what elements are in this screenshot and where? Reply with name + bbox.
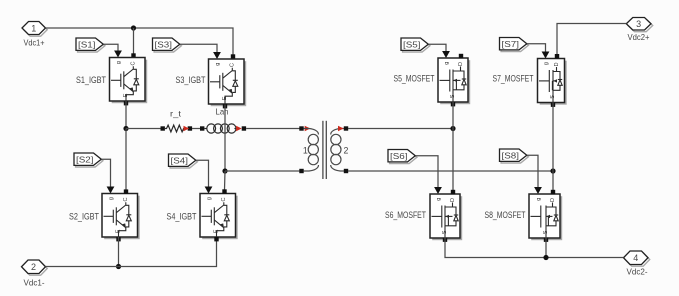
- wire S3 emitter to node c: [224, 105, 226, 172]
- wire [S1] to S1 gate: [103, 44, 122, 57]
- from tag [S3]: [153, 38, 182, 52]
- wire node c to transformer primary -: [225, 170, 300, 172]
- svg-text:g: g: [207, 197, 213, 200]
- junction node e (right bridge midpoint 1): [450, 126, 455, 131]
- pin S of S7: [551, 103, 555, 107]
- pin S of S8: [544, 238, 548, 242]
- pin E of S4: [214, 237, 218, 241]
- junction node d (Vdc1- rail): [116, 264, 121, 269]
- label S2_IGBT: [69, 211, 99, 221]
- label S7_MOSFET: [493, 73, 534, 83]
- svg-text:D: D: [550, 198, 556, 202]
- from tag [S7]: [500, 38, 529, 52]
- transistor S8 (MOSFET): [529, 194, 562, 240]
- transformer T1 (linear transformer): [299, 121, 348, 179]
- label Lan: [216, 106, 229, 116]
- svg-text:4: 4: [633, 253, 638, 263]
- svg-text:g: g: [116, 61, 122, 64]
- svg-text:[S6]: [S6]: [390, 151, 408, 161]
- svg-text:g: g: [436, 198, 442, 201]
- pin E of S1: [124, 101, 128, 105]
- wire S7 source to node f: [552, 103, 554, 172]
- wire [S7] to S7 gate: [527, 44, 550, 59]
- wire transformer secondary + to node e: [348, 128, 453, 130]
- transistor S3 (IGBT/Diode): [209, 59, 247, 106]
- wire Vdc1- rail: [46, 240, 217, 267]
- wire S1 emitter to node b: [125, 101, 127, 129]
- svg-text:C: C: [123, 197, 129, 201]
- pin E of S2: [116, 237, 120, 241]
- pin D of S5 (unconnected): [459, 54, 463, 58]
- port 3 (Vdc2+): [626, 18, 652, 43]
- wire [S4] to S4 gate: [196, 160, 213, 193]
- svg-text:1: 1: [303, 146, 308, 156]
- svg-text:r_t: r_t: [170, 109, 182, 119]
- from tag [S4]: [169, 154, 198, 168]
- pin E of S3: [223, 104, 227, 108]
- junction node g (Vdc2- rail): [543, 255, 548, 260]
- svg-text:Vdc2+: Vdc2+: [628, 32, 650, 42]
- wire node b to r_t: [126, 128, 161, 130]
- svg-text:Vdc1+: Vdc1+: [24, 38, 45, 48]
- svg-text:[S8]: [S8]: [502, 150, 520, 160]
- label S3_IGBT: [176, 75, 206, 85]
- svg-text:g: g: [544, 62, 550, 65]
- svg-text:2: 2: [31, 262, 36, 272]
- wire node b to S2 collector: [124, 129, 128, 194]
- svg-text:2: 2: [343, 146, 348, 156]
- svg-text:S5_MOSFET: S5_MOSFET: [394, 73, 435, 83]
- wire S6 source to Vdc2- rail: [445, 238, 624, 258]
- svg-text:[S4]: [S4]: [171, 155, 189, 165]
- wire node c to S4 collector: [222, 171, 226, 194]
- wire S5 source to node e: [452, 102, 454, 129]
- inductor Lan: [200, 124, 246, 133]
- label S1_IGBT: [76, 75, 106, 85]
- svg-text:D: D: [450, 198, 456, 202]
- svg-text:Vdc1-: Vdc1-: [24, 277, 45, 287]
- pin C of S3: [231, 54, 235, 58]
- port 2 (Vdc1-): [22, 260, 48, 287]
- wire node e to S6 drain: [451, 129, 455, 195]
- svg-text:C: C: [230, 63, 236, 67]
- wire Vdc2+ rail: [555, 24, 627, 59]
- wire [S3] to S3 gate: [180, 44, 221, 59]
- svg-text:[S7]: [S7]: [502, 39, 520, 49]
- svg-text:C: C: [221, 197, 227, 201]
- svg-text:3: 3: [636, 19, 641, 29]
- wire Vdc1+ rail: [46, 28, 234, 55]
- svg-text:g: g: [215, 63, 221, 66]
- wire transformer secondary - to node f: [348, 170, 553, 172]
- svg-text:g: g: [444, 62, 450, 65]
- svg-text:D: D: [458, 62, 464, 66]
- wire S8 source to Vdc2- rail: [545, 238, 547, 258]
- wire r_t to Lan: [192, 128, 200, 130]
- resistor r_t: [161, 125, 193, 132]
- wire [S8] to S8 gate: [527, 155, 542, 194]
- label S8_MOSFET: [485, 210, 526, 220]
- wire Lan to transformer primary +: [246, 128, 299, 130]
- svg-text:[S5]: [S5]: [403, 39, 421, 49]
- transistor S2 (IGBT/Diode): [102, 194, 140, 240]
- from tag [S6]: [388, 150, 417, 164]
- svg-text:C: C: [131, 61, 137, 65]
- svg-text:[S2]: [S2]: [76, 154, 94, 164]
- junction node c (left bridge midpoint 2): [222, 168, 227, 173]
- transistor S6 (MOSFET): [430, 194, 462, 240]
- wire [S6] to S6 gate: [415, 156, 442, 194]
- svg-text:g: g: [536, 198, 542, 201]
- svg-text:1: 1: [31, 23, 36, 33]
- label r_t: [170, 109, 182, 119]
- wire [S5] to S5 gate: [428, 44, 450, 58]
- svg-text:S1_IGBT: S1_IGBT: [76, 75, 106, 85]
- svg-text:[S3]: [S3]: [155, 39, 173, 49]
- svg-text:S2_IGBT: S2_IGBT: [69, 211, 99, 221]
- wire [S2] to S2 gate: [101, 159, 114, 193]
- svg-text:S6_MOSFET: S6_MOSFET: [385, 210, 426, 220]
- label transformer winding 1: [303, 146, 308, 156]
- transistor S5 (MOSFET): [438, 58, 470, 104]
- wire S1 collector drop: [131, 28, 135, 58]
- from tag [S8]: [500, 149, 529, 163]
- pin S of S5: [451, 102, 455, 106]
- port 1 (Vdc1+): [22, 22, 47, 48]
- label S4_IGBT: [167, 211, 197, 221]
- svg-text:[S1]: [S1]: [78, 39, 96, 49]
- transistor S1 (IGBT/Diode): [110, 58, 148, 104]
- svg-text:S4_IGBT: S4_IGBT: [167, 211, 197, 221]
- svg-text:S3_IGBT: S3_IGBT: [176, 75, 206, 85]
- pin S of S6: [443, 238, 447, 242]
- wire node f to S8 drain: [551, 171, 555, 194]
- svg-text:Vdc2-: Vdc2-: [627, 267, 648, 277]
- label transformer winding 2: [343, 146, 348, 156]
- wire S2 emitter to Vdc1- rail: [118, 237, 120, 267]
- svg-text:S7_MOSFET: S7_MOSFET: [493, 73, 534, 83]
- junction node a (S1 collector tap): [131, 25, 136, 30]
- svg-text:D: D: [554, 62, 560, 66]
- label S5_MOSFET: [394, 73, 435, 83]
- junction node b (left bridge midpoint 1): [123, 126, 128, 131]
- transistor S4 (IGBT/Diode): [200, 194, 238, 240]
- from tag [S2]: [74, 153, 103, 167]
- svg-text:g: g: [109, 197, 115, 200]
- label S6_MOSFET: [385, 210, 426, 220]
- from tag [S1]: [76, 38, 105, 52]
- port 4 (Vdc2-): [624, 251, 650, 277]
- transistor S7 (MOSFET): [538, 59, 567, 105]
- svg-text:S8_MOSFET: S8_MOSFET: [485, 210, 526, 220]
- junction node f (right bridge midpoint 2): [550, 168, 555, 173]
- from tag [S5]: [401, 38, 430, 52]
